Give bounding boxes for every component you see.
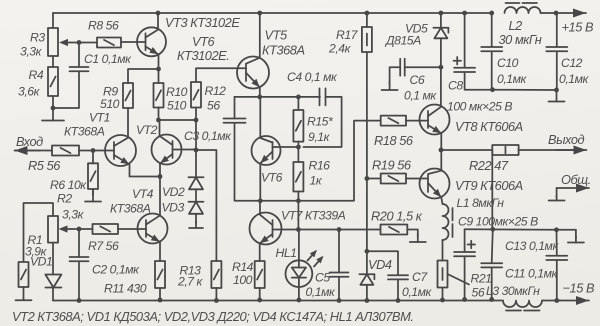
junction C11 on ground rail [489,297,494,302]
transistor VT2 [152,135,182,165]
ground: C6 [389,82,391,90]
svg-text:С12: С12 [561,56,583,70]
svg-text:VT6: VT6 [192,34,215,49]
junction R15/R16/VT6 base [296,145,301,150]
wire: VD2 anode to VD3 cathode [195,189,197,202]
svg-text:−15 В: −15 В [563,281,595,296]
wire: VT3 emitter riser [158,55,160,70]
wire: R1 top to R2 top [24,203,54,262]
junction C7 on ground rail [396,298,401,303]
wire: VD5 top riser [440,13,442,27]
wire: VT1 emitter to common node [130,165,161,177]
wire: node to R15 top [260,96,299,98]
wire: R7 to VT4 base [118,228,146,230]
junction VD4 on ground rail [365,298,370,303]
svg-text:Вход: Вход [16,134,43,149]
core of L2 [506,2,538,4]
wire: row end to ground stub [557,230,576,238]
svg-text:9,1к: 9,1к [308,130,331,144]
wire: R15 top riser [297,97,299,110]
junction filter/C13 [554,227,559,232]
svg-text:3,3к: 3,3к [20,45,43,59]
wire: R20 right to ground [407,230,418,238]
junction HL1 on ground rail [297,298,302,303]
svg-text:С1 0,1мк: С1 0,1мк [84,52,132,66]
junction VT6 emitter / VT7 collector / C3 / R18 tap [258,198,263,203]
wire: C11 bottom lead [491,268,493,300]
terminal arrow -15V [557,300,589,302]
wire: C5 bottom lead [338,277,340,301]
ground: common terminal [556,195,558,201]
wire: L1 to R21 [442,240,444,261]
capacitor C8 [454,67,475,69]
svg-text:VD1: VD1 [30,255,52,269]
ground: R20 [417,234,419,242]
wire: emitter node to R10 top [158,69,160,83]
resistor R16 [293,162,303,192]
diode VD3 [189,202,203,214]
leader line R21 label [448,274,470,285]
junction C12 bottom / ground [554,88,559,93]
wire: cascode node to R18 column [260,121,380,201]
wire: R2 bottom to VD1 [52,243,54,275]
svg-text:30 мкГн: 30 мкГн [499,32,542,47]
junction VT1/VT2 emitters / VT4 collector [158,174,163,179]
junction R4/C1/ground [51,106,56,111]
wire: C13 riser [556,230,558,256]
wire: VD1 cathode to rail [52,288,54,301]
svg-text:100 мк×25 В: 100 мк×25 В [447,100,512,114]
wire: C9 top lead [464,229,466,251]
wire: VT2 base lead [173,149,197,151]
resistor R17 [362,27,372,52]
wire: C2 top lead [78,229,80,257]
junction C5 on ground rail [337,298,342,303]
svg-text:VT2: VT2 [136,123,158,137]
resistor R7 [93,224,119,234]
resistor R1 [19,262,29,287]
svg-text:R14: R14 [232,260,254,274]
wire: VD2 column upper [195,120,197,150]
svg-text:56: 56 [472,286,485,300]
wire: input line [15,150,52,152]
svg-text:С13 0,1мк: С13 0,1мк [505,239,559,253]
junction VD5/C6/VT8 collector [439,65,444,70]
wire: R19 left lead [367,178,381,180]
junction R10/VT2 collector [156,118,161,123]
svg-text:R7 56: R7 56 [88,239,119,253]
wire: ground node to C1 bottom [53,72,79,108]
wire: VT7 collector riser [259,201,261,215]
junction VT5 emitter / VT6 collector / C3 [257,95,262,100]
junction VT3 emitter / R9 / R10 [156,67,161,72]
wire: branch to R13 top [196,150,216,261]
svg-text:R12: R12 [205,84,227,98]
wire: R17 column down [366,52,368,179]
junction VD4 / C7 branch [365,249,370,254]
diode VD1 [45,275,61,288]
wire: to C4 left plate [298,96,320,98]
ground: R6 [92,189,94,202]
wire: +15V top rail left section [53,12,492,14]
wire: VT8 emitter riser [440,134,442,151]
junction C2 on ground rail [77,298,82,303]
wire: R4 bottom to ground node [52,96,54,108]
wire: VD4 anode to rail [366,285,368,301]
wire: C1 top lead [78,43,80,68]
wire: +15V top rail between L2 and C12 [541,12,557,14]
svg-text:3,6к: 3,6к [18,85,41,99]
svg-text:510: 510 [167,99,187,113]
wire: R16 node to VT7 base row [297,201,299,230]
capacitor C13 [546,255,567,257]
resistor R19 [381,174,406,184]
resistor R11 [155,261,165,288]
wire: VT5 collector riser [259,13,261,58]
wire: VT2 emitter riser [159,164,161,177]
resistor R4 [48,67,58,96]
wire: R9 bottom to VT1 collector [127,108,129,138]
svg-text:0,1 мк: 0,1 мк [404,89,437,103]
svg-text:С11 0,1мк: С11 0,1мк [505,267,559,281]
svg-text:L2: L2 [509,18,523,33]
svg-text:R17: R17 [336,28,359,42]
wire: C12 top lead [556,13,558,47]
svg-text:R5 56: R5 56 [28,158,61,173]
junction R15 top / C4 left [296,95,301,100]
transistor VT6 [252,136,281,165]
svg-text:С4 0,1 мк: С4 0,1 мк [287,70,338,84]
ground: R1 bottom bar [23,299,25,300]
svg-text:VT1: VT1 [89,111,110,125]
ground: filter right [575,236,577,243]
svg-text:0,1мк: 0,1мк [497,72,527,86]
wire: VD3 anode stub [195,214,197,223]
wire: R16 bottom riser [297,192,299,201]
wire: C5 riser [338,230,340,273]
wire: node to VD2 cathode [195,150,197,177]
resistor R5 [52,146,79,156]
svg-text:VT4: VT4 [132,187,154,201]
wire: column to VD4 node [366,179,368,252]
wire: output row to R22 [441,149,492,151]
transistor VT9 [420,169,450,199]
wire: R12 bottom riser [195,108,197,121]
svg-text:56: 56 [207,99,220,113]
wire: ground rail left section [53,300,503,302]
resistor R10 [154,83,164,108]
node VT2 base / VD2 / R13 branch [194,148,199,153]
svg-text:R18 56: R18 56 [374,133,414,148]
svg-text:VD3: VD3 [162,201,185,215]
wire: VD4 node to C7 column [367,251,398,275]
wire: filter node row [465,228,557,231]
junction R11 on ground rail [158,298,163,303]
wire: HL1 top riser [298,230,300,268]
capacitor C1 [70,66,89,68]
transistor VT7 [250,213,282,245]
potentiometer R3 [48,28,58,56]
junction C5 tap [337,227,342,232]
resistor R22 [492,145,518,155]
svg-text:1к: 1к [310,174,323,188]
wire: R13 bottom to rail [215,288,217,301]
svg-text:КТ368А: КТ368А [110,202,151,216]
capacitor C2 [70,256,89,258]
wire: C12 bottom lead [556,52,558,91]
svg-text:КТ368А: КТ368А [64,125,105,139]
wire: node to R12 bottom [159,119,197,121]
junction R12 bottom / VD2 column [194,118,199,123]
wire: VT9 emitter to L1 [441,198,442,205]
wire: VD5 cathode ... anode to node [440,38,442,67]
LED HL1 [286,260,313,287]
wire: VT6 emitter riser [259,164,261,201]
junction wiper/C1 [77,40,82,45]
wire: R3 bottom to R4 top [52,56,54,67]
wire: R1 bottom [23,287,25,300]
wire: C8 top lead [464,13,466,68]
wire: C3 column [234,97,236,119]
svg-text:VT3 КТ3102Е: VT3 КТ3102Е [165,15,240,30]
capacitor C8 polarity plus [454,57,462,65]
junction filter/C11 riser [490,227,495,232]
wire: common stub [556,188,558,197]
resistor R6 [88,163,98,189]
terminal arrow +15V [556,12,586,14]
wire: C11 riser [492,229,493,263]
resistor R12 [191,82,201,108]
trimmer arrow R2 wiper [65,228,71,230]
svg-text:+15 В: +15 В [562,20,594,35]
zener diode VD4 [360,274,373,285]
junction VT5 collector on rail [257,11,262,16]
ground: VD3 anode [195,221,197,228]
junction VD5 on rail [439,11,444,16]
svg-text:R19 56: R19 56 [372,158,412,173]
core of L3 [506,310,540,312]
capacitor C5 [330,272,349,274]
svg-text:2,7 к: 2,7 к [177,275,204,289]
wire: emitter node to R9 top [128,69,159,83]
capacitor C9 [454,251,475,253]
wire: C10 bottom lead [491,52,493,90]
wire: R22 to output arrow [519,149,577,151]
wire: R17 top riser [366,13,368,27]
wire: VT8 collector riser [440,67,442,106]
wire: C3 top run [235,96,260,98]
wire: R14 bottom to rail [259,288,261,300]
capacitor C9 polarity plus [468,241,476,248]
svg-text:VT9 КТ606А: VT9 КТ606А [455,178,523,193]
wire: VT7 emitter to R14 [259,244,261,262]
svg-text:С7: С7 [412,270,428,284]
potentiometer R2 [48,216,58,243]
wire: R3 wiper to R8 [70,42,97,44]
resistor R15 [293,110,303,142]
junction R14 on ground rail [257,298,262,303]
wire: C2 bottom lead [78,262,80,301]
svg-text:2,4к: 2,4к [328,42,352,56]
capacitor C6 [399,59,401,76]
wire: C6 right lead [405,66,441,68]
svg-text:L3 30мкГн: L3 30мкГн [486,284,540,298]
svg-text:VD4: VD4 [368,257,392,272]
svg-text:R22 47: R22 47 [469,158,509,173]
junction C13 on ground rail [554,298,559,303]
wire: VD4 top lead [366,251,368,274]
wire: C9 bottom lead [464,257,466,300]
junction C10 bottom [490,87,495,92]
svg-text:С8: С8 [448,79,463,93]
wire: VT6 collector riser [259,97,261,138]
svg-text:VD2: VD2 [162,185,185,199]
core of L1 [452,208,454,237]
wire: R6 top riser [92,151,94,164]
wire: VT7 base lead [273,229,299,231]
zener diode VD5 [434,28,447,39]
ground: PSU filter [556,90,558,102]
svg-text:R6 10к: R6 10к [50,178,87,192]
diode VD2 [189,177,203,189]
wire: R8 to VT3 base [121,41,146,43]
wire: filter riser R22 left to C-node [491,150,493,229]
svg-text:С3 0,1мк: С3 0,1мк [184,129,232,143]
junction VT8 emitter / VT9 collector / output [439,148,444,153]
svg-text:510: 510 [100,97,120,111]
resistor R13 [211,261,221,288]
svg-text:100: 100 [233,273,253,287]
junction R13 on ground rail [214,298,219,303]
transistor VT1 [105,135,136,166]
wire: C8 bottom to ground row [465,72,493,89]
junction C10/L2 left on rail [489,11,494,16]
wire: riser rail to R3 top [52,13,54,28]
wire: VT6 base lead [273,146,299,148]
svg-text:Общ.: Общ. [561,172,591,187]
svg-text:R16: R16 [309,159,331,173]
junction VT7 base / R20 row / HL1 [296,227,301,232]
junction VT3 collector on rail [156,11,161,16]
terminal arrow output Vykhod [556,149,587,151]
svg-text:Выход: Выход [548,132,585,147]
junction R21 on ground rail [440,298,445,303]
wire: C4 right to R15/R16 node [303,97,341,147]
svg-text:R15*: R15* [307,115,334,129]
resistor R8 [97,38,121,48]
svg-text:R10: R10 [166,85,188,99]
resistor R21 [438,261,448,288]
resistor R20 [381,225,408,235]
capacitor C11 [481,262,502,264]
capacitor C4 [319,88,321,105]
transistor VT4 [138,214,168,244]
svg-text:VT5: VT5 [265,28,288,43]
wire: base row to R20 [298,229,380,231]
resistor R18 [381,116,406,126]
svg-text:R3: R3 [30,31,45,45]
svg-text:КТ3102Е.: КТ3102Е. [177,48,229,63]
junction R19 left [365,176,370,181]
svg-text:HL1: HL1 [276,246,297,260]
wire: R10 bottom riser [158,108,160,121]
wire: R5 to VT1 base [79,150,114,152]
junction R16 bottom on cascode row [296,198,301,203]
svg-text:R8 56: R8 56 [88,19,119,33]
svg-text:VT2 КТ368А; VD1 КД503А; VD2,VD: VT2 КТ368А; VD1 КД503А; VD2,VD3 Д220; VD… [12,309,414,324]
junction R5/R6/VT1 base [91,148,96,153]
wire: R11 bottom to rail [159,288,161,300]
svg-text:R11 430: R11 430 [104,282,147,296]
svg-text:VT8 КТ606А: VT8 КТ606А [455,119,523,134]
wire: C6 left to ground [390,67,401,85]
capacitor C12 [546,46,567,48]
transistor VT8 [420,105,450,135]
wire: VT3 collector riser [157,13,159,30]
svg-text:КТ368А: КТ368А [262,43,305,58]
wire: R2 wiper to R7 [70,228,93,230]
transistor VT5 [237,57,269,89]
wire: common node to VT4 collector [159,177,161,216]
trimmer arrow R3 wiper [65,42,70,44]
svg-text:0,1мк: 0,1мк [402,285,432,299]
resistor R14 [255,261,265,288]
wire: PSU ground row [493,89,557,91]
svg-text:R20 1,5 к: R20 1,5 к [371,209,423,224]
wire: R18 right to VT8 base [406,120,428,122]
wire: R19 right to VT9 base [406,178,428,180]
junction C12/L2 right on rail [554,11,559,16]
svg-text:R2: R2 [57,192,72,206]
svg-text:0,1мк: 0,1мк [306,285,336,299]
svg-text:С6: С6 [410,73,425,87]
svg-text:С2 0,1мк: С2 0,1мк [92,263,140,277]
wire: R12 top to VT5 base [196,68,246,82]
ground: input divider [52,108,54,121]
wire: ground rail right section [543,300,561,302]
wire: C13 bottom lead [556,260,558,300]
wire: R15 bottom to node [297,142,299,162]
wire: R21 bottom to rail [442,288,444,301]
inductor L3 [503,301,542,308]
svg-text:VT7 КТ339А: VT7 КТ339А [281,209,346,223]
wire: C10 top lead [491,13,493,47]
wire: VT4 emitter to R11 [159,242,161,261]
svg-text:С5: С5 [315,271,330,285]
terminal arrow input Vhod [15,150,41,152]
wire: C3 bottom to cascode node [235,123,260,201]
capacitor C7 [388,274,408,276]
resistor R9 [123,83,133,108]
wire: HL1 bottom riser [298,278,300,300]
wire: VT9 collector riser [440,150,442,171]
capacitor C3 [224,118,246,120]
inductor L2 [505,7,541,13]
junction C8 on rail [462,11,467,16]
wire: R6 bottom riser [92,189,94,195]
wire: VT5 emitter riser [259,88,261,97]
svg-text:С10: С10 [497,56,519,70]
svg-text:VT6: VT6 [261,171,283,185]
inductor L1 [443,204,449,240]
wire: VT2 collector riser [159,120,161,136]
capacitor C10 [481,46,502,48]
svg-text:0,1мк: 0,1мк [559,72,589,86]
svg-text:3,3к: 3,3к [62,208,85,222]
transistor VT3 [137,27,166,56]
svg-text:С9 100мк×25 В: С9 100мк×25 В [458,215,538,229]
svg-text:L1 8мкГн: L1 8мкГн [457,196,505,210]
